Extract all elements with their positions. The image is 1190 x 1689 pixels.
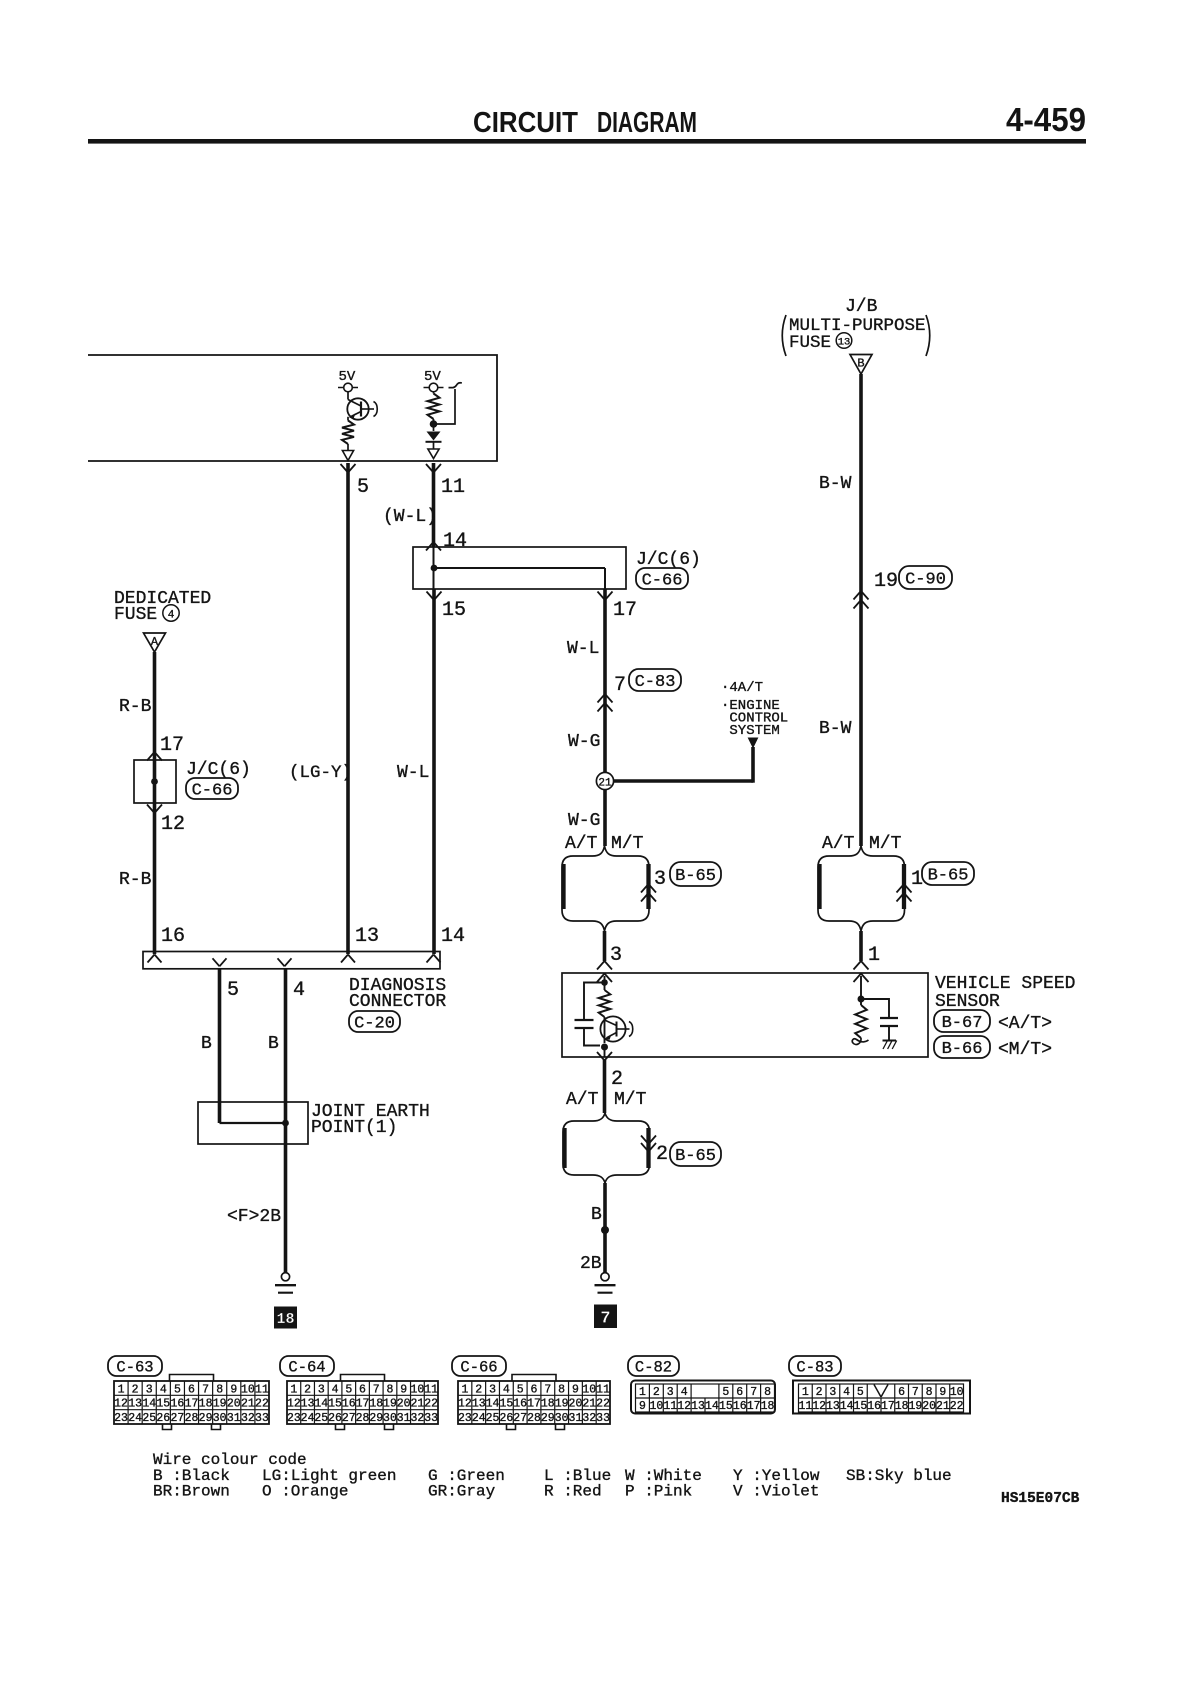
svg-text:22: 22	[255, 1398, 269, 1411]
svg-text:3: 3	[667, 1386, 674, 1399]
svg-text:9: 9	[572, 1383, 579, 1396]
svg-text:11: 11	[424, 1383, 438, 1396]
svg-text:C-66: C-66	[642, 572, 683, 591]
svg-text:·4A/T: ·4A/T	[721, 680, 763, 696]
svg-text:C-66: C-66	[192, 782, 233, 801]
svg-text:16: 16	[867, 1400, 881, 1413]
svg-text:21: 21	[936, 1400, 950, 1413]
svg-text:11: 11	[596, 1383, 610, 1396]
svg-text:12: 12	[677, 1400, 691, 1413]
svg-text:9: 9	[639, 1400, 646, 1413]
svg-text:4: 4	[332, 1383, 339, 1396]
svg-text:21: 21	[582, 1398, 596, 1411]
svg-text:7: 7	[544, 1383, 551, 1396]
svg-text:SB:Sky blue: SB:Sky blue	[846, 1467, 952, 1485]
svg-text:6: 6	[531, 1383, 538, 1396]
svg-text:8: 8	[216, 1383, 223, 1396]
svg-text:4: 4	[681, 1386, 688, 1399]
svg-text:29: 29	[369, 1412, 383, 1425]
svg-text:30: 30	[213, 1412, 227, 1425]
svg-text:17: 17	[185, 1398, 199, 1411]
svg-text:17: 17	[613, 599, 637, 622]
svg-text:9: 9	[230, 1383, 237, 1396]
svg-text:2: 2	[656, 1143, 668, 1166]
svg-text:3: 3	[654, 868, 666, 891]
svg-text:19: 19	[213, 1398, 227, 1411]
svg-text:19: 19	[908, 1400, 922, 1413]
svg-text:18: 18	[276, 1311, 294, 1328]
svg-text:18: 18	[541, 1398, 555, 1411]
svg-text:26: 26	[156, 1412, 170, 1425]
svg-text:6: 6	[359, 1383, 366, 1396]
svg-text:4: 4	[293, 979, 305, 1002]
svg-text:14: 14	[840, 1400, 854, 1413]
svg-text:9: 9	[939, 1386, 946, 1399]
svg-text:12: 12	[812, 1400, 826, 1413]
svg-text:1: 1	[290, 1383, 297, 1396]
svg-text:A/T: A/T	[822, 834, 855, 854]
svg-text:3: 3	[489, 1383, 496, 1396]
svg-text:20: 20	[922, 1400, 936, 1413]
svg-text:C-90: C-90	[905, 571, 946, 590]
svg-text:22: 22	[950, 1400, 964, 1413]
svg-text:C-64: C-64	[288, 1359, 325, 1377]
svg-text:23: 23	[458, 1412, 472, 1425]
svg-text:27: 27	[342, 1412, 356, 1425]
svg-text:3: 3	[829, 1386, 836, 1399]
svg-text:33: 33	[255, 1412, 269, 1425]
svg-text:26: 26	[499, 1412, 513, 1425]
svg-text:5: 5	[722, 1386, 729, 1399]
svg-text:17: 17	[160, 734, 184, 757]
svg-text:25: 25	[142, 1412, 156, 1425]
svg-text:<M/T>: <M/T>	[998, 1040, 1052, 1060]
svg-text:V :Violet: V :Violet	[733, 1483, 819, 1501]
svg-text:18: 18	[895, 1400, 909, 1413]
svg-text:17: 17	[881, 1400, 895, 1413]
svg-text:20: 20	[397, 1398, 411, 1411]
svg-text:14: 14	[142, 1398, 156, 1411]
svg-text:4: 4	[168, 609, 175, 621]
svg-text:2B: 2B	[580, 1254, 602, 1274]
svg-text:6: 6	[736, 1386, 743, 1399]
svg-text:17: 17	[527, 1398, 541, 1411]
svg-text:4-459: 4-459	[1006, 101, 1086, 138]
svg-text:8: 8	[764, 1386, 771, 1399]
svg-text:23: 23	[287, 1412, 301, 1425]
svg-text:HS15E07CB: HS15E07CB	[1001, 1491, 1080, 1507]
svg-text:22: 22	[424, 1398, 438, 1411]
svg-text:CIRCUIT: CIRCUIT	[473, 107, 578, 139]
svg-text:5: 5	[517, 1383, 524, 1396]
svg-text:SYSTEM: SYSTEM	[729, 723, 779, 739]
svg-text:11: 11	[255, 1383, 269, 1396]
svg-text:A/T: A/T	[566, 1090, 599, 1110]
svg-text:12: 12	[114, 1398, 128, 1411]
svg-text:24: 24	[301, 1412, 315, 1425]
svg-text:16: 16	[171, 1398, 185, 1411]
svg-text:C-83: C-83	[635, 673, 676, 692]
svg-text:FUSE: FUSE	[114, 605, 157, 625]
svg-text:21: 21	[411, 1398, 425, 1411]
svg-text:14: 14	[441, 925, 465, 948]
svg-text:14: 14	[486, 1398, 500, 1411]
svg-text:26: 26	[328, 1412, 342, 1425]
svg-text:5: 5	[345, 1383, 352, 1396]
svg-text:6: 6	[188, 1383, 195, 1396]
svg-text:9: 9	[400, 1383, 407, 1396]
svg-text:14: 14	[314, 1398, 328, 1411]
svg-text:B: B	[268, 1034, 279, 1054]
svg-text:B-67: B-67	[942, 1014, 983, 1033]
svg-text:P :Pink: P :Pink	[625, 1483, 692, 1501]
svg-text:W-G: W-G	[568, 811, 600, 831]
svg-text:28: 28	[527, 1412, 541, 1425]
svg-text:25: 25	[486, 1412, 500, 1425]
svg-text:3: 3	[146, 1383, 153, 1396]
svg-text:R :Red: R :Red	[544, 1483, 602, 1501]
svg-text:11: 11	[441, 476, 465, 499]
svg-text:C-20: C-20	[354, 1015, 395, 1034]
svg-text:BR:Brown: BR:Brown	[153, 1483, 230, 1501]
svg-text:11: 11	[798, 1400, 812, 1413]
svg-text:2: 2	[132, 1383, 139, 1396]
svg-text:7: 7	[614, 674, 626, 697]
svg-text:B-65: B-65	[675, 1147, 716, 1166]
svg-text:29: 29	[199, 1412, 213, 1425]
svg-text:15: 15	[442, 599, 466, 622]
svg-text:O :Orange: O :Orange	[262, 1483, 348, 1501]
svg-text:7: 7	[202, 1383, 209, 1396]
svg-text:5: 5	[174, 1383, 181, 1396]
svg-text:CONNECTOR: CONNECTOR	[349, 992, 446, 1012]
svg-text:12: 12	[287, 1398, 301, 1411]
svg-text:5: 5	[227, 979, 239, 1002]
svg-text:W-G: W-G	[568, 732, 600, 752]
svg-text:10: 10	[582, 1383, 596, 1396]
svg-text:B: B	[591, 1205, 602, 1225]
svg-text:8: 8	[926, 1386, 933, 1399]
svg-text:M/T: M/T	[611, 834, 644, 854]
svg-text:B-66: B-66	[942, 1040, 983, 1059]
svg-text:22: 22	[596, 1398, 610, 1411]
svg-text:13: 13	[301, 1398, 315, 1411]
svg-text:31: 31	[397, 1412, 411, 1425]
svg-text:28: 28	[356, 1412, 370, 1425]
svg-text:B-W: B-W	[819, 474, 852, 494]
svg-text:A/T: A/T	[565, 834, 598, 854]
svg-text:20: 20	[227, 1398, 241, 1411]
svg-text:2: 2	[611, 1068, 623, 1091]
svg-text:17: 17	[356, 1398, 370, 1411]
svg-text:15: 15	[156, 1398, 170, 1411]
svg-text:POINT(1): POINT(1)	[311, 1118, 397, 1138]
svg-text:16: 16	[342, 1398, 356, 1411]
svg-text:C-82: C-82	[635, 1359, 672, 1377]
svg-text:FUSE: FUSE	[789, 333, 831, 353]
svg-text:13: 13	[472, 1398, 486, 1411]
svg-text:B-W: B-W	[819, 719, 852, 739]
svg-text:21: 21	[241, 1398, 255, 1411]
svg-text:27: 27	[513, 1412, 527, 1425]
svg-text:10: 10	[950, 1386, 964, 1399]
svg-text:24: 24	[128, 1412, 142, 1425]
svg-text:7: 7	[750, 1386, 757, 1399]
svg-text:16: 16	[161, 925, 185, 948]
svg-text:11: 11	[663, 1400, 677, 1413]
svg-text:31: 31	[227, 1412, 241, 1425]
svg-text:M/T: M/T	[614, 1090, 647, 1110]
svg-text:33: 33	[596, 1412, 610, 1425]
svg-text:10: 10	[411, 1383, 425, 1396]
svg-text:J/B: J/B	[845, 297, 878, 317]
svg-text:32: 32	[582, 1412, 596, 1425]
svg-text:J/C(6): J/C(6)	[636, 550, 701, 570]
svg-text:<F>2B: <F>2B	[227, 1207, 281, 1227]
svg-text:13: 13	[838, 337, 851, 349]
svg-text:10: 10	[649, 1400, 663, 1413]
svg-text:19: 19	[555, 1398, 569, 1411]
svg-text:28: 28	[185, 1412, 199, 1425]
svg-text:14: 14	[705, 1400, 719, 1413]
svg-text:30: 30	[383, 1412, 397, 1425]
svg-text:21: 21	[598, 778, 612, 790]
svg-text:5: 5	[357, 476, 369, 499]
svg-text:29: 29	[541, 1412, 555, 1425]
svg-text:J/C(6): J/C(6)	[186, 760, 251, 780]
svg-text:31: 31	[569, 1412, 583, 1425]
svg-text:27: 27	[171, 1412, 185, 1425]
svg-text:2: 2	[653, 1386, 660, 1399]
svg-text:DIAGRAM: DIAGRAM	[597, 107, 697, 139]
svg-text:25: 25	[314, 1412, 328, 1425]
svg-text:15: 15	[328, 1398, 342, 1411]
svg-text:32: 32	[411, 1412, 425, 1425]
svg-text:19: 19	[874, 570, 898, 593]
svg-text:13: 13	[826, 1400, 840, 1413]
svg-text:1: 1	[802, 1386, 809, 1399]
svg-text:4: 4	[843, 1386, 850, 1399]
svg-text:7: 7	[600, 1310, 610, 1329]
svg-text:17: 17	[747, 1400, 761, 1413]
svg-text:C-66: C-66	[460, 1359, 497, 1377]
svg-text:10: 10	[241, 1383, 255, 1396]
svg-text:SENSOR: SENSOR	[935, 992, 1000, 1012]
svg-text:7: 7	[373, 1383, 380, 1396]
svg-text:(LG-Y): (LG-Y)	[289, 763, 352, 783]
svg-text:18: 18	[761, 1400, 775, 1413]
svg-text:C-63: C-63	[116, 1359, 153, 1377]
svg-text:6: 6	[898, 1386, 905, 1399]
svg-text:15: 15	[853, 1400, 867, 1413]
svg-text:18: 18	[199, 1398, 213, 1411]
svg-text:7: 7	[912, 1386, 919, 1399]
svg-text:C-83: C-83	[796, 1359, 833, 1377]
svg-text:R-B: R-B	[119, 870, 152, 890]
svg-text:<A/T>: <A/T>	[998, 1014, 1052, 1034]
svg-text:20: 20	[569, 1398, 583, 1411]
svg-text:B: B	[201, 1034, 212, 1054]
svg-text:1: 1	[868, 944, 880, 967]
svg-text:3: 3	[318, 1383, 325, 1396]
svg-text:4: 4	[503, 1383, 510, 1396]
svg-text:12: 12	[458, 1398, 472, 1411]
svg-text:15: 15	[499, 1398, 513, 1411]
svg-text:2: 2	[304, 1383, 311, 1396]
svg-text:5: 5	[857, 1386, 864, 1399]
svg-text:1: 1	[461, 1383, 468, 1396]
svg-text:24: 24	[472, 1412, 486, 1425]
svg-text:M/T: M/T	[869, 834, 902, 854]
svg-text:19: 19	[383, 1398, 397, 1411]
svg-text:GR:Gray: GR:Gray	[428, 1483, 496, 1501]
svg-text:13: 13	[355, 925, 379, 948]
svg-text:4: 4	[160, 1383, 167, 1396]
svg-text:8: 8	[387, 1383, 394, 1396]
svg-text:13: 13	[691, 1400, 705, 1413]
svg-text:15: 15	[719, 1400, 733, 1413]
svg-text:16: 16	[733, 1400, 747, 1413]
svg-text:13: 13	[128, 1398, 142, 1411]
svg-text:18: 18	[369, 1398, 383, 1411]
svg-text:2: 2	[475, 1383, 482, 1396]
svg-text:R-B: R-B	[119, 697, 152, 717]
svg-text:30: 30	[555, 1412, 569, 1425]
svg-text:1: 1	[639, 1386, 646, 1399]
svg-text:B-65: B-65	[675, 867, 716, 886]
svg-text:VEHICLE SPEED: VEHICLE SPEED	[935, 974, 1075, 994]
svg-text:3: 3	[610, 944, 622, 967]
svg-text:32: 32	[241, 1412, 255, 1425]
svg-text:12: 12	[161, 813, 185, 836]
svg-text:14: 14	[443, 530, 467, 553]
svg-text:A: A	[151, 635, 159, 649]
svg-text:2: 2	[816, 1386, 823, 1399]
svg-text:1: 1	[118, 1383, 125, 1396]
svg-text:33: 33	[424, 1412, 438, 1425]
svg-text:23: 23	[114, 1412, 128, 1425]
svg-text:W-L: W-L	[397, 763, 429, 783]
svg-text:8: 8	[558, 1383, 565, 1396]
svg-text:W-L: W-L	[567, 639, 599, 659]
svg-text:B: B	[857, 357, 864, 371]
svg-text:(W-L): (W-L)	[383, 507, 437, 527]
svg-text:16: 16	[513, 1398, 527, 1411]
svg-text:B-65: B-65	[928, 867, 969, 886]
